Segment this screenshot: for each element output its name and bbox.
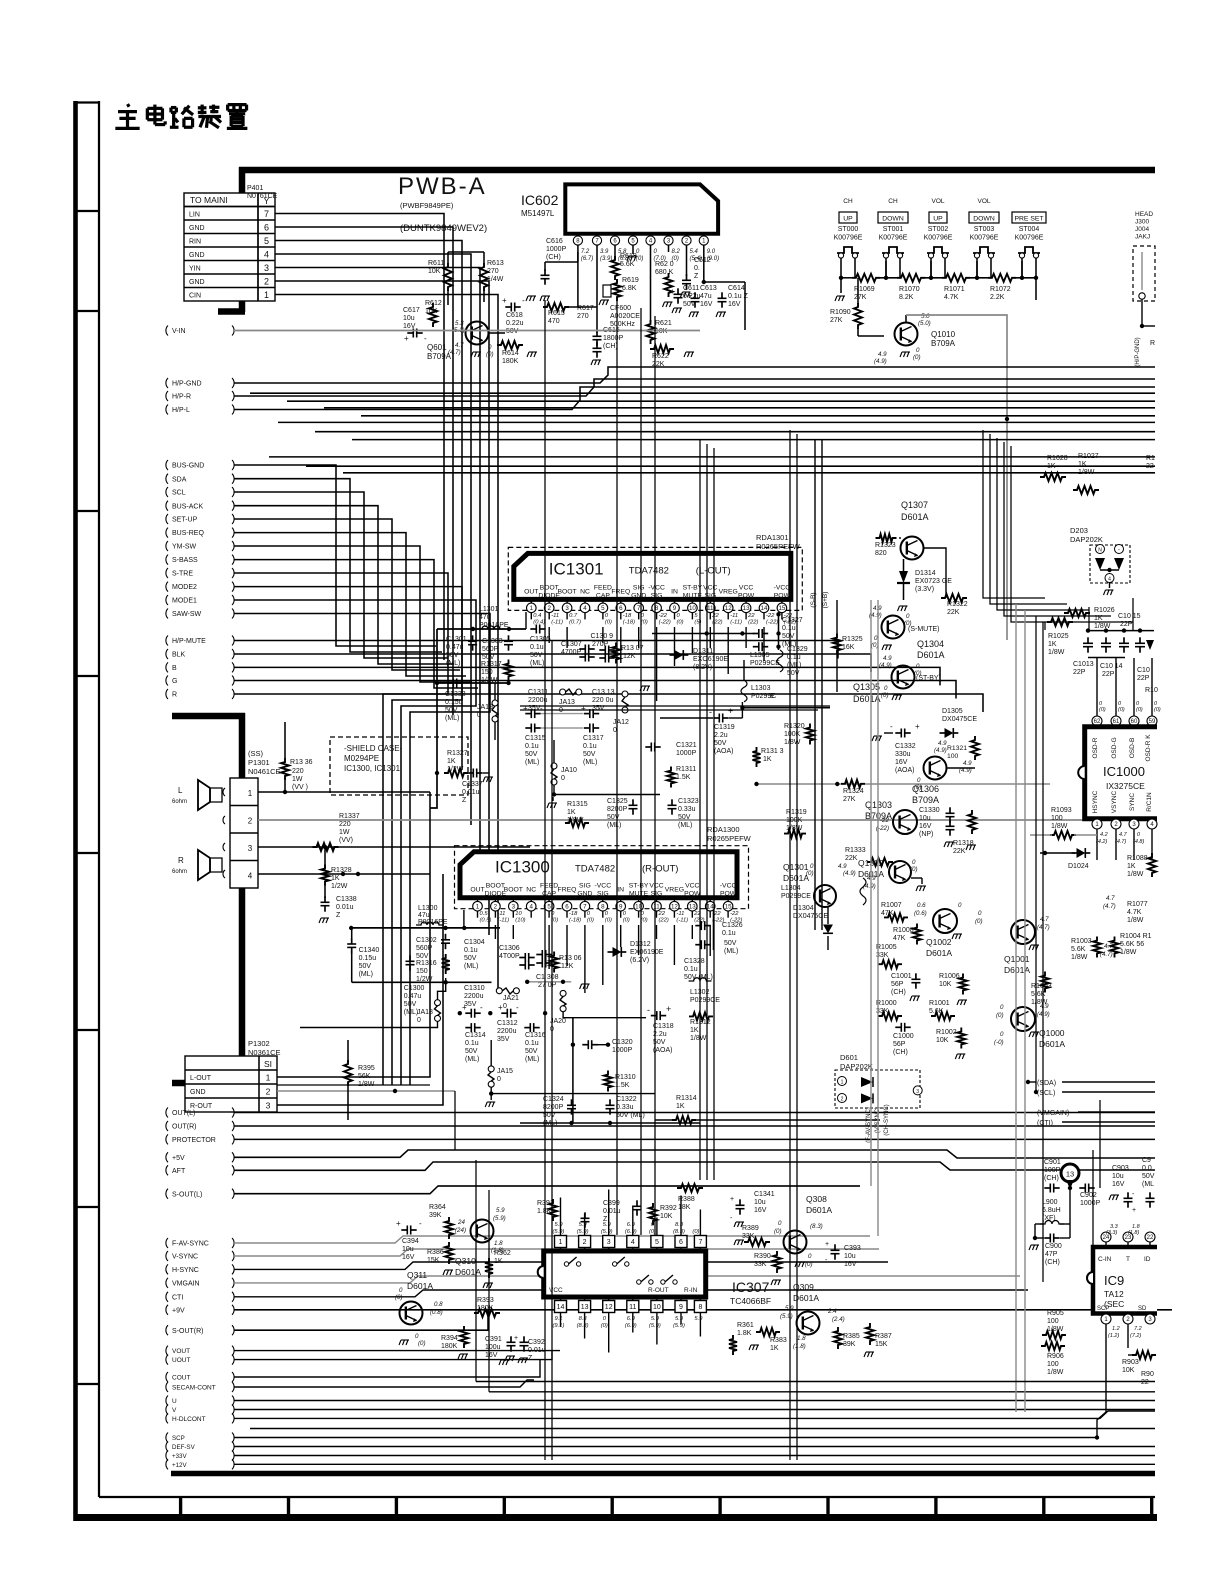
svg-text:1K: 1K bbox=[567, 809, 576, 816]
svg-text:RDA1301: RDA1301 bbox=[756, 533, 789, 542]
ground Q1305 bbox=[892, 695, 902, 700]
svg-text:4: 4 bbox=[248, 872, 253, 881]
svg-text:C1303: C1303 bbox=[482, 638, 503, 645]
port VOUT bbox=[166, 1346, 168, 1356]
resistor R1327 bbox=[444, 769, 468, 777]
IC1300 pin 2 bbox=[494, 898, 496, 902]
svg-text:DX0475CE: DX0475CE bbox=[793, 913, 828, 920]
svg-text:VREG: VREG bbox=[719, 588, 738, 595]
transistor Q1002 bbox=[933, 909, 957, 933]
svg-text:5.9: 5.9 bbox=[694, 1316, 703, 1322]
wire H/P-GND run bbox=[234, 367, 1155, 383]
svg-text:CH: CH bbox=[843, 198, 853, 205]
ground pin9 stub bbox=[640, 686, 650, 691]
svg-text:7.2: 7.2 bbox=[581, 249, 590, 255]
IC1300 pin 3 bbox=[512, 898, 514, 902]
svg-text:Z: Z bbox=[462, 797, 467, 804]
svg-text:6: 6 bbox=[264, 223, 269, 233]
svg-text:VREG: VREG bbox=[665, 887, 684, 894]
svg-text:22K: 22K bbox=[845, 855, 858, 862]
wire SCL run bbox=[234, 492, 448, 658]
svg-text:R1093: R1093 bbox=[1051, 807, 1072, 814]
svg-text:R615: R615 bbox=[548, 310, 565, 317]
svg-text:IC1301: IC1301 bbox=[549, 559, 604, 578]
frame bottom tick bbox=[826, 1497, 829, 1517]
svg-text:R393: R393 bbox=[477, 1297, 494, 1304]
svg-text:(PWBF9849PE): (PWBF9849PE) bbox=[400, 201, 454, 210]
capacitor C1307 bbox=[585, 645, 588, 654]
svg-text:1K: 1K bbox=[494, 1258, 503, 1265]
svg-text:D1024: D1024 bbox=[1068, 863, 1089, 870]
svg-text:-: - bbox=[1118, 548, 1120, 554]
capacitor C1337 bbox=[473, 769, 476, 778]
capacitor C1302 bbox=[441, 940, 450, 943]
resistor R1031 bbox=[1041, 972, 1049, 993]
svg-text:(0): (0) bbox=[881, 692, 889, 699]
svg-text:1.8: 1.8 bbox=[494, 1240, 503, 1247]
svg-text:-VCC: -VCC bbox=[774, 584, 791, 591]
svg-text:1/8W: 1/8W bbox=[1094, 623, 1111, 630]
svg-text:R13 06: R13 06 bbox=[559, 955, 582, 962]
svg-text:16V: 16V bbox=[919, 823, 932, 830]
transistor Q1304 bbox=[882, 616, 905, 639]
svg-text:R1077: R1077 bbox=[1127, 901, 1148, 908]
port U bbox=[166, 1396, 168, 1406]
frame bottom tick bbox=[1042, 1497, 1045, 1517]
wire BUS-GND run bbox=[234, 465, 436, 646]
svg-text:12K: 12K bbox=[623, 653, 636, 660]
svg-text:RIN: RIN bbox=[189, 239, 201, 246]
svg-text:FEED: FEED bbox=[594, 584, 612, 591]
svg-text:(4.7): (4.7) bbox=[1115, 839, 1126, 845]
svg-text:24: 24 bbox=[1103, 1235, 1110, 1241]
resistor R622 bbox=[650, 345, 674, 353]
svg-text:0.6: 0.6 bbox=[917, 902, 926, 909]
svg-text:C1301: C1301 bbox=[446, 636, 467, 643]
svg-text:4: 4 bbox=[264, 250, 269, 260]
IC1300 pin 12 bbox=[673, 898, 675, 902]
svg-text:100: 100 bbox=[1051, 815, 1063, 822]
capacitor C1330 bbox=[946, 813, 955, 816]
IC1000 pin 61 bbox=[1115, 658, 1117, 716]
svg-text:100: 100 bbox=[1047, 1361, 1059, 1368]
IC307 pin 11 bbox=[632, 1297, 634, 1301]
svg-text:R614: R614 bbox=[502, 350, 519, 357]
svg-text:5.6K: 5.6K bbox=[620, 261, 635, 268]
wire JA10 down bbox=[553, 785, 555, 795]
capacitor C1317 bbox=[590, 724, 593, 733]
resistor R386 bbox=[445, 1242, 453, 1264]
svg-text:(ML): (ML) bbox=[464, 963, 478, 970]
IC1000 pin 60 bbox=[1133, 658, 1135, 716]
svg-text:50V: 50V bbox=[525, 1048, 538, 1055]
svg-text:(R-OUT): (R-OUT) bbox=[642, 864, 678, 875]
svg-text:15: 15 bbox=[778, 605, 785, 612]
svg-text:SI: SI bbox=[264, 1059, 272, 1069]
svg-text:3: 3 bbox=[248, 844, 253, 853]
svg-text:0.01u: 0.01u bbox=[336, 904, 354, 911]
ground R383 bbox=[749, 1345, 759, 1350]
ground D203 bbox=[1109, 583, 1111, 589]
svg-text:0.1u: 0.1u bbox=[465, 1040, 479, 1047]
svg-text:C10 14: C10 14 bbox=[1100, 663, 1123, 670]
capacitor C1318 (polarized) bbox=[657, 1011, 660, 1020]
svg-text:JA13: JA13 bbox=[559, 699, 575, 706]
svg-text:10K: 10K bbox=[939, 981, 952, 988]
svg-text:OSD-R K: OSD-R K bbox=[1145, 734, 1152, 762]
svg-text:0.1u: 0.1u bbox=[684, 966, 698, 973]
port +5V bbox=[166, 1152, 168, 1162]
IC1300 pin 13 bbox=[691, 898, 693, 902]
svg-text:CH: CH bbox=[888, 198, 898, 205]
svg-text:1: 1 bbox=[266, 1073, 271, 1083]
svg-text:3: 3 bbox=[266, 1101, 271, 1111]
svg-text:1800P: 1800P bbox=[603, 335, 624, 342]
resistor R1333 bbox=[867, 858, 893, 866]
svg-text:(0): (0) bbox=[677, 620, 684, 626]
svg-text:15: 15 bbox=[725, 903, 732, 910]
svg-text:(-18): (-18) bbox=[569, 918, 581, 924]
vertical bundle x700 region bbox=[699, 440, 701, 1180]
svg-text:SIG: SIG bbox=[651, 891, 663, 898]
svg-text:0: 0 bbox=[477, 712, 481, 719]
inductor L1300 bbox=[416, 922, 444, 925]
svg-text:9: 9 bbox=[679, 1304, 683, 1311]
svg-text:220 0u: 220 0u bbox=[592, 697, 614, 704]
svg-text:5.9: 5.9 bbox=[651, 1316, 660, 1322]
svg-text:(0.8): (0.8) bbox=[430, 1309, 443, 1316]
IC1300 pin 6 bbox=[566, 898, 568, 902]
svg-text:(ML): (ML) bbox=[446, 660, 460, 667]
svg-text:5.0: 5.0 bbox=[921, 313, 930, 320]
svg-text:1/8W: 1/8W bbox=[1051, 823, 1068, 830]
svg-text:V: V bbox=[172, 1407, 177, 1414]
frame bottom tick bbox=[179, 1497, 182, 1517]
svg-text:R611: R611 bbox=[428, 260, 444, 267]
svg-text:IN: IN bbox=[617, 887, 624, 894]
svg-text:C1326: C1326 bbox=[722, 922, 743, 929]
svg-text:(6.9): (6.9) bbox=[625, 1323, 637, 1329]
frame tick bbox=[76, 1029, 100, 1031]
svg-text:R1325: R1325 bbox=[842, 636, 863, 643]
wire bus A bbox=[250, 392, 1155, 394]
IC307 pin 14 bbox=[560, 1297, 562, 1301]
ground Q1304 bbox=[882, 645, 892, 650]
svg-text:1/2W: 1/2W bbox=[331, 883, 348, 890]
transistor Q1001 bbox=[1011, 920, 1035, 944]
svg-text:50V: 50V bbox=[404, 1001, 417, 1008]
svg-text:11: 11 bbox=[707, 605, 714, 612]
svg-text:50V: 50V bbox=[359, 963, 372, 970]
svg-text:10K: 10K bbox=[1122, 1367, 1135, 1374]
svg-text:ID: ID bbox=[1144, 1256, 1151, 1263]
svg-text:R1320: R1320 bbox=[784, 723, 805, 730]
svg-text:(4.9): (4.9) bbox=[863, 883, 876, 890]
svg-text:1: 1 bbox=[530, 605, 534, 612]
svg-text:39K: 39K bbox=[429, 1212, 442, 1219]
svg-text:V-SYNC: V-SYNC bbox=[172, 1254, 198, 1261]
wire run y710 bbox=[520, 709, 818, 711]
resistor R1028 bbox=[1040, 473, 1066, 481]
IC602 pin 7 bbox=[596, 234, 598, 237]
capacitor C1014 bbox=[1101, 643, 1111, 646]
port S-OUT(L) bbox=[166, 1189, 168, 1199]
port BUS-REQ bbox=[166, 528, 168, 538]
svg-text:+: + bbox=[514, 1335, 518, 1342]
ground C1337 bbox=[483, 772, 489, 774]
wire JA18 path bbox=[438, 978, 446, 1000]
wire rail y683 bbox=[437, 682, 510, 684]
wire IC1300 pin stubs bbox=[494, 925, 496, 939]
svg-text:ST004: ST004 bbox=[1019, 226, 1040, 233]
svg-text:Z: Z bbox=[336, 912, 341, 919]
svg-text:R364: R364 bbox=[429, 1204, 446, 1211]
svg-text:5: 5 bbox=[601, 605, 605, 612]
svg-text:FREQ: FREQ bbox=[611, 588, 630, 595]
port H/P-R bbox=[166, 391, 168, 401]
svg-text:1: 1 bbox=[841, 1080, 844, 1086]
svg-text:50V: 50V bbox=[465, 1048, 478, 1055]
svg-text:(0): (0) bbox=[914, 784, 922, 791]
svg-text:C10 15: C10 15 bbox=[1118, 613, 1141, 620]
svg-text:0: 0 bbox=[916, 347, 920, 354]
wire DEF-SV bbox=[234, 1446, 1155, 1448]
svg-text:47K: 47K bbox=[893, 935, 906, 942]
svg-text:C1307: C1307 bbox=[561, 641, 582, 648]
wire audio rail y629 bbox=[437, 628, 526, 630]
connector P1302 table bbox=[185, 1056, 277, 1112]
svg-text:YM-SW: YM-SW bbox=[172, 544, 197, 551]
wire S-OUT(R) bbox=[234, 1310, 488, 1330]
svg-text:(SS): (SS) bbox=[248, 749, 264, 758]
svg-text:R: R bbox=[172, 692, 177, 699]
svg-text:0.47u: 0.47u bbox=[446, 644, 464, 651]
resistor R393 bbox=[474, 1309, 500, 1317]
svg-text:M51497L: M51497L bbox=[521, 209, 555, 218]
wire IC1301 pin stubs bbox=[548, 627, 550, 643]
svg-text:3.9: 3.9 bbox=[600, 249, 609, 255]
svg-text:9.1: 9.1 bbox=[555, 1316, 563, 1322]
svg-text:R906: R906 bbox=[1047, 1353, 1064, 1360]
resistor R1071 bbox=[942, 274, 970, 282]
svg-text:R1311: R1311 bbox=[676, 766, 696, 773]
svg-text:CIN: CIN bbox=[189, 293, 201, 300]
port SDA bbox=[166, 474, 168, 484]
svg-text:50V: 50V bbox=[607, 814, 620, 821]
svg-text:5.6K: 5.6K bbox=[1071, 946, 1086, 953]
jumper JA20 bbox=[560, 990, 566, 996]
svg-text:4: 4 bbox=[1108, 577, 1111, 583]
wire BUS-REQ run bbox=[234, 533, 466, 676]
capacitor C1327 bbox=[759, 629, 762, 638]
svg-text:4.9: 4.9 bbox=[838, 863, 847, 870]
diode D1024 bbox=[1077, 848, 1086, 858]
svg-text:L1300: L1300 bbox=[418, 905, 438, 912]
svg-text:Q309: Q309 bbox=[793, 1282, 814, 1292]
port SCP bbox=[166, 1433, 168, 1443]
svg-text:+33V: +33V bbox=[172, 1453, 187, 1460]
svg-text:22: 22 bbox=[1141, 1379, 1149, 1386]
svg-text:50V: 50V bbox=[1142, 1173, 1155, 1180]
port AFT bbox=[166, 1165, 168, 1175]
svg-text:50V: 50V bbox=[525, 751, 538, 758]
svg-text:N0461CE: N0461CE bbox=[248, 767, 281, 776]
svg-text:R13 36: R13 36 bbox=[290, 759, 313, 766]
wire PROTECTOR bbox=[234, 1138, 1155, 1140]
svg-text:BOOT: BOOT bbox=[540, 584, 559, 591]
resistor R1026 bbox=[1064, 609, 1090, 617]
svg-text:4.7: 4.7 bbox=[455, 342, 464, 349]
capacitor C1313 (polarized) bbox=[590, 709, 593, 718]
capacitor C1312b (polarized) bbox=[507, 1009, 510, 1018]
svg-text:50V: 50V bbox=[724, 940, 737, 947]
svg-text:27K: 27K bbox=[843, 796, 856, 803]
svg-text:7: 7 bbox=[698, 1239, 702, 1246]
capacitor C1016 bbox=[1135, 643, 1145, 646]
svg-text:R385: R385 bbox=[843, 1333, 860, 1340]
svg-text:22: 22 bbox=[747, 613, 755, 619]
svg-text:+: + bbox=[404, 334, 409, 343]
wire AFT bbox=[234, 1162, 1155, 1170]
svg-text:220: 220 bbox=[292, 768, 304, 775]
svg-text:270: 270 bbox=[577, 313, 589, 320]
svg-text:VSYNC: VSYNC bbox=[1111, 791, 1118, 814]
vertical bundle from IC602 pins to bottom bbox=[616, 300, 618, 1235]
svg-text:3: 3 bbox=[512, 903, 516, 910]
svg-text:R: R bbox=[1150, 340, 1155, 347]
svg-text:BOOT: BOOT bbox=[486, 883, 505, 890]
capacitor C902 bbox=[1085, 1184, 1088, 1193]
svg-text:DOWN: DOWN bbox=[882, 216, 904, 223]
svg-text:0: 0 bbox=[958, 902, 962, 909]
resistor R1003 bbox=[1093, 937, 1101, 958]
svg-text:(0): (0) bbox=[486, 351, 494, 358]
svg-text:-11: -11 bbox=[730, 613, 738, 619]
wire C1319 row bbox=[660, 717, 713, 719]
wire S-TRE run bbox=[234, 573, 448, 1085]
svg-text:0.1u: 0.1u bbox=[782, 625, 796, 632]
svg-text:D601A: D601A bbox=[917, 650, 945, 660]
wire S-B vertical bbox=[814, 440, 816, 930]
svg-text:H/P-L: H/P-L bbox=[172, 407, 190, 414]
svg-text:(0): (0) bbox=[1099, 707, 1106, 713]
svg-text:TO MAINI: TO MAINI bbox=[190, 195, 228, 205]
svg-text:C1323: C1323 bbox=[678, 798, 699, 805]
svg-text:D601A: D601A bbox=[901, 512, 929, 522]
svg-text:G: G bbox=[172, 678, 177, 685]
svg-text:R389: R389 bbox=[742, 1225, 759, 1232]
svg-text:4.7K: 4.7K bbox=[944, 294, 959, 301]
port PROTECTOR bbox=[166, 1134, 168, 1144]
svg-text:D203: D203 bbox=[1070, 526, 1088, 535]
svg-text:1: 1 bbox=[248, 789, 253, 798]
svg-text:10u: 10u bbox=[754, 1199, 766, 1206]
diode D601 pair bbox=[861, 1077, 873, 1087]
port OUT(L) bbox=[166, 1108, 168, 1118]
svg-text:0.33u: 0.33u bbox=[678, 806, 696, 813]
svg-text:10K: 10K bbox=[936, 1037, 949, 1044]
ground C1330 bbox=[944, 842, 954, 847]
inductor L1305 bbox=[777, 650, 783, 672]
svg-text:JA15: JA15 bbox=[497, 1068, 513, 1075]
svg-text:(4.9): (4.9) bbox=[843, 870, 856, 877]
inductor L1302 bbox=[689, 978, 712, 981]
svg-text:NC: NC bbox=[580, 588, 590, 595]
port +12V bbox=[166, 1459, 168, 1469]
svg-text:L1301: L1301 bbox=[479, 606, 499, 613]
svg-text:R392: R392 bbox=[660, 1205, 677, 1212]
svg-text:1000P: 1000P bbox=[612, 1047, 633, 1054]
svg-text:-18: -18 bbox=[623, 613, 632, 619]
svg-text:-SHIELD CASE-: -SHIELD CASE- bbox=[344, 744, 403, 753]
svg-text:(3.3V): (3.3V) bbox=[915, 586, 934, 593]
svg-text:J004: J004 bbox=[1135, 226, 1149, 233]
switch IC307 top pin risers bbox=[560, 1198, 562, 1236]
svg-text:JA18: JA18 bbox=[417, 1009, 433, 1016]
port R bbox=[166, 689, 168, 699]
resistor R385 bbox=[834, 1327, 842, 1349]
vertical line x1155 border various bbox=[454, 1091, 456, 1150]
svg-text:10: 10 bbox=[515, 911, 522, 917]
capacitor C1333 bbox=[453, 679, 456, 688]
svg-text:IC602: IC602 bbox=[521, 192, 559, 208]
svg-text:C1338: C1338 bbox=[336, 896, 357, 903]
headphone jack (dashed) bbox=[1133, 246, 1155, 301]
svg-text:(ML): (ML) bbox=[404, 1009, 418, 1016]
svg-text:D1304: D1304 bbox=[793, 905, 814, 912]
svg-text:56P: 56P bbox=[891, 981, 904, 988]
resistor R611 bbox=[444, 263, 452, 291]
svg-text:+9V: +9V bbox=[172, 1307, 185, 1314]
IC1300 pin 5 bbox=[548, 898, 550, 902]
port V bbox=[166, 1405, 168, 1415]
IC1300 pin 8 bbox=[602, 898, 604, 902]
wire +5V bbox=[234, 1150, 1155, 1158]
transistor Q1305 bbox=[892, 666, 915, 689]
svg-text:-: - bbox=[540, 704, 543, 713]
wire P1301 pin4 bbox=[258, 873, 430, 875]
svg-text:50V: 50V bbox=[678, 814, 691, 821]
svg-text:SCP: SCP bbox=[172, 1435, 185, 1442]
svg-text:-: - bbox=[890, 722, 893, 731]
svg-text:100: 100 bbox=[1047, 1318, 1059, 1325]
svg-text:SCL: SCL bbox=[172, 490, 186, 497]
svg-text:4.9: 4.9 bbox=[938, 740, 947, 747]
svg-text:K00796E: K00796E bbox=[1015, 235, 1044, 242]
resistor R1315 bbox=[565, 819, 589, 827]
port DEF-SV bbox=[166, 1442, 168, 1452]
frame tick bbox=[76, 675, 100, 677]
PWB-A board outline: top thick bar bbox=[239, 167, 1155, 174]
capacitor C612 bbox=[682, 280, 691, 283]
IC901 pin 3 bbox=[1145, 1314, 1155, 1324]
amplifier IC1300 body bbox=[460, 852, 737, 898]
amplifier IC1301 body bbox=[514, 553, 791, 599]
svg-text:C1314: C1314 bbox=[465, 1032, 486, 1039]
svg-text:R1025: R1025 bbox=[1048, 633, 1069, 640]
svg-text:D1311: D1311 bbox=[693, 648, 713, 655]
svg-text:C616: C616 bbox=[546, 238, 563, 245]
PWB-A board outline: speaker notch bracket bbox=[239, 713, 246, 1085]
wire V-SYNC bbox=[234, 1249, 879, 1256]
svg-text:16V: 16V bbox=[1112, 1181, 1125, 1188]
svg-text:0.1u: 0.1u bbox=[525, 1040, 539, 1047]
svg-text:ST000: ST000 bbox=[838, 226, 859, 233]
svg-text:(0): (0) bbox=[913, 354, 921, 361]
resistor R1027 bbox=[1073, 486, 1099, 494]
IC1300 pin 1 bbox=[477, 898, 479, 902]
diode D203 pair bbox=[1095, 558, 1105, 570]
